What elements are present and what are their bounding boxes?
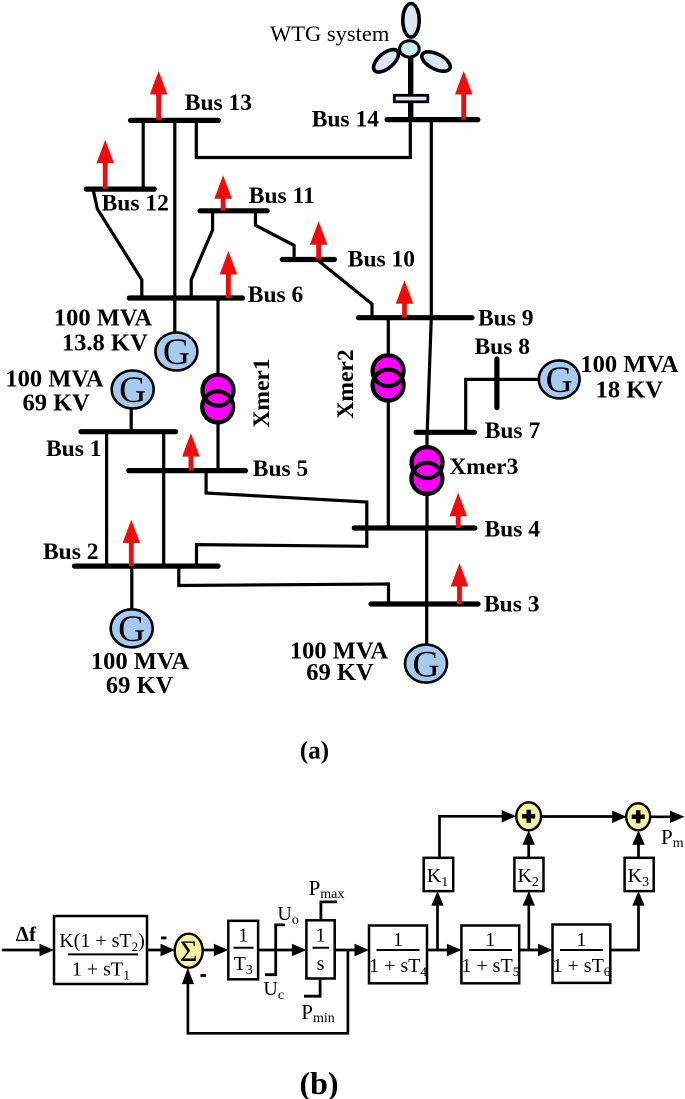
bus 8 bar (vertical): [494, 359, 499, 408]
wire feedback loop: [188, 950, 348, 1033]
svg-text:Xmer1: Xmer1: [249, 358, 275, 427]
load arrow bus 10: [310, 221, 328, 259]
arrowhead into boxT5: [447, 944, 462, 956]
wire Bus7-Xmer3-Bus4: [425, 432, 428, 528]
svg-text:18 KV: 18 KV: [596, 377, 664, 404]
integrator upper limit mark: [321, 902, 337, 920]
load arrow bus 12: [96, 140, 114, 189]
load arrow bus 9: [396, 280, 414, 317]
box1 lead-lag: [54, 916, 147, 984]
summing junction sum1: [175, 934, 203, 968]
box K1: [424, 858, 454, 891]
wire Bus2-Bus4: [197, 528, 367, 566]
bus 7 bar: [416, 430, 474, 435]
transformer Xmer2: [371, 353, 406, 402]
summing junction sum3: [626, 803, 650, 830]
svg-text:1: 1: [393, 929, 403, 951]
svg-text:1 + sT1: 1 + sT1: [72, 959, 130, 984]
wire input to box1: [2, 949, 41, 952]
wire Bus4-Bus3: [425, 528, 428, 604]
svg-text:100 MVA: 100 MVA: [54, 305, 153, 332]
generator G3 circle: [111, 609, 153, 647]
box K2: [514, 858, 543, 891]
arrowhead K3 into sum3: [632, 830, 644, 845]
bus 5 bar: [129, 468, 246, 473]
svg-text:100 MVA: 100 MVA: [5, 366, 104, 393]
svg-text:69 KV: 69 KV: [106, 672, 174, 699]
arrowhead into boxT6: [538, 944, 553, 956]
wire sum2 to sum3: [541, 815, 612, 818]
wire Bus2-Bus3: [179, 566, 389, 604]
wire sum3 output: [650, 815, 671, 818]
bus 13 bar: [131, 118, 219, 123]
wire Bus6-Xmer1-Bus5: [216, 298, 219, 471]
arrowhead feedback into sum1: [182, 968, 194, 985]
svg-text:Bus 13: Bus 13: [185, 90, 252, 116]
arrowhead into boxT4: [355, 944, 370, 956]
svg-text:Bus 4: Bus 4: [485, 517, 541, 543]
sum2 plus sign: [522, 810, 535, 823]
wire box1 to sum1: [147, 949, 161, 952]
box1 fraction bar: [68, 953, 138, 955]
wire G2-Bus1: [130, 409, 133, 432]
svg-text:Bus 7: Bus 7: [485, 418, 541, 444]
load arrow bus 11: [214, 175, 232, 211]
wire Bus11-Bus10: [256, 211, 295, 260]
PART A BUSBARS: [75, 120, 497, 604]
bus 4 bar: [354, 525, 475, 530]
wire Bus7-Bus8-G5: [466, 379, 539, 432]
svg-text:Xmer3: Xmer3: [449, 454, 518, 480]
wire Bus13-Bus12: [142, 120, 145, 189]
summing junction sum2: [516, 802, 541, 830]
generator G2 circle: [112, 371, 154, 409]
wire K2 to sum2: [527, 845, 530, 858]
wire Bus2-G3: [130, 566, 133, 611]
svg-text:Σ: Σ: [180, 935, 197, 968]
svg-text:1: 1: [485, 929, 495, 951]
arrowhead output Pm: [670, 811, 685, 823]
svg-text:(b): (b): [299, 1065, 338, 1099]
svg-text:Bus 6: Bus 6: [248, 282, 304, 308]
wire boxT3 to box integrator: [258, 949, 292, 952]
bus 12 bar: [86, 187, 154, 192]
svg-text:Bus 14: Bus 14: [312, 107, 380, 133]
svg-text:100 MVA: 100 MVA: [580, 351, 679, 378]
arrowhead into integrator: [292, 944, 307, 956]
load arrow bus 6: [220, 251, 238, 298]
wire Bus14-Bus9: [430, 120, 433, 318]
generator G1 circle: [155, 333, 197, 371]
limiter symbol Uo/Uc: [265, 925, 285, 975]
wire boxT5 to boxT6: [519, 949, 538, 952]
sum3 plus sign: [632, 810, 645, 823]
svg-text:1 + sT4: 1 + sT4: [369, 955, 427, 979]
svg-text:1: 1: [316, 925, 326, 947]
arrowhead into K3: [632, 891, 644, 906]
arrowhead into sum1: [161, 944, 176, 956]
svg-text:1 + sT5: 1 + sT5: [461, 955, 519, 979]
svg-text:Bus 8: Bus 8: [475, 334, 531, 360]
wind turbine tower: [408, 52, 413, 120]
svg-text:G: G: [118, 609, 145, 650]
svg-text:Bus 1: Bus 1: [46, 436, 102, 462]
wind turbine left blade: [370, 45, 403, 76]
wire Bus1-Bus2 left: [105, 432, 108, 566]
integrator fraction bar: [313, 947, 330, 949]
PART A WIRES: [93, 120, 539, 646]
load arrow bus 2: [123, 520, 141, 567]
svg-text:G: G: [119, 370, 146, 411]
svg-text:1 + sT6: 1 + sT6: [553, 955, 611, 979]
arrowhead into box1: [40, 944, 55, 956]
bus 9 bar: [359, 315, 473, 320]
wire K1 to sum2: [440, 816, 503, 858]
wire takeoff to K2: [527, 904, 530, 950]
svg-text:Bus 12: Bus 12: [102, 190, 169, 216]
wire Bus11-Bus6: [191, 211, 212, 298]
wire Bus5-Bus4: [206, 471, 367, 528]
wire Bus9-Xmer2-Bus4: [387, 318, 390, 528]
integrator lower limit mark: [304, 979, 320, 997]
svg-text:1: 1: [576, 929, 586, 951]
svg-text:Bus 3: Bus 3: [484, 592, 540, 618]
svg-text:Bus 11: Bus 11: [249, 183, 315, 209]
svg-text:Pmax: Pmax: [309, 876, 345, 902]
wind turbine right blade: [419, 48, 453, 75]
svg-text:100 MVA: 100 MVA: [91, 648, 190, 675]
svg-text:Bus 5: Bus 5: [253, 456, 309, 482]
bus 1 bar: [81, 429, 176, 434]
load arrow bus 4: [449, 493, 467, 528]
wire boxT6 to K3: [610, 904, 638, 950]
load arrow bus 14: [455, 71, 473, 120]
wire integrator to boxT4: [335, 949, 355, 952]
generator G5 circle: [539, 360, 580, 398]
bus 11 bar: [200, 208, 267, 213]
bus 3 bar: [371, 601, 478, 606]
bus 2 bar: [75, 563, 219, 568]
arrowhead into boxT3: [214, 944, 229, 956]
wire takeoff to K1: [436, 904, 439, 950]
box T5: [461, 926, 519, 984]
load arrow bus 3: [451, 563, 469, 604]
svg-text:s: s: [317, 953, 325, 975]
wire Bus1-Bus5-Bus2: [162, 432, 165, 566]
load arrow bus 13: [150, 71, 168, 120]
wind turbine top blade: [403, 4, 419, 38]
PART B BLOCK DIAGRAM: [2, 816, 671, 1033]
svg-text:69 KV: 69 KV: [306, 659, 374, 686]
wind turbine gearbox: [394, 95, 428, 102]
wire Bus10-Bus9: [319, 260, 372, 318]
bus 6 bar: [129, 295, 242, 300]
svg-text:G: G: [546, 360, 573, 401]
arrowhead sum2 into sum3: [612, 811, 627, 823]
box integrator 1/s: [306, 920, 334, 978]
svg-text:Uo: Uo: [277, 903, 298, 928]
svg-text:(a): (a): [300, 738, 329, 765]
svg-text:G: G: [412, 644, 439, 685]
arrowhead into K1: [431, 891, 443, 906]
box T3 fraction bar: [234, 947, 254, 949]
svg-text:Uc: Uc: [263, 978, 284, 1003]
load arrow bus 5: [182, 433, 200, 471]
arrowhead K2 into sum2: [523, 830, 535, 845]
svg-text:Bus 9: Bus 9: [478, 306, 534, 332]
wire Bus13-Bus6: [173, 120, 176, 298]
svg-text:Xmer2: Xmer2: [333, 349, 359, 418]
box T3: [228, 921, 258, 980]
wire sum1 to boxT3: [203, 949, 216, 952]
box T4: [369, 926, 427, 984]
generator G4 circle: [405, 645, 447, 683]
transformer Xmer3: [409, 445, 444, 496]
arrowhead into K2: [523, 891, 535, 906]
svg-text:G: G: [163, 332, 190, 373]
minus sign at sum1 feedback: [200, 974, 206, 977]
wire Bus9-Bus7: [427, 318, 431, 433]
arrowhead K1 into sum2: [502, 810, 517, 822]
svg-text:69 KV: 69 KV: [23, 390, 91, 417]
transformer Xmer1: [200, 373, 235, 425]
wire Bus3-G4: [425, 604, 428, 646]
svg-text:Pm: Pm: [661, 825, 684, 851]
svg-text:Δf: Δf: [16, 922, 37, 946]
wire Bus6-G1: [173, 298, 176, 334]
box T6: [553, 925, 611, 983]
svg-text:Pmin: Pmin: [301, 1000, 334, 1026]
minus sign at sum1 input: [161, 937, 167, 940]
svg-text:Bus 10: Bus 10: [348, 247, 415, 273]
svg-text:13.8 KV: 13.8 KV: [62, 330, 148, 357]
svg-text:1: 1: [238, 925, 248, 947]
wire boxT4 to boxT5: [427, 949, 447, 952]
wind turbine hub: [400, 41, 420, 57]
svg-text:Bus 2: Bus 2: [43, 539, 99, 565]
svg-text:WTG system: WTG system: [270, 21, 390, 46]
wire K3 to sum3: [637, 845, 640, 858]
bus 10 bar: [282, 257, 334, 262]
box K3: [625, 858, 654, 891]
wire Bus12-Bus6: [93, 189, 142, 298]
wire Bus13-Bus14: [196, 120, 410, 158]
bus 14 bar: [387, 117, 478, 122]
